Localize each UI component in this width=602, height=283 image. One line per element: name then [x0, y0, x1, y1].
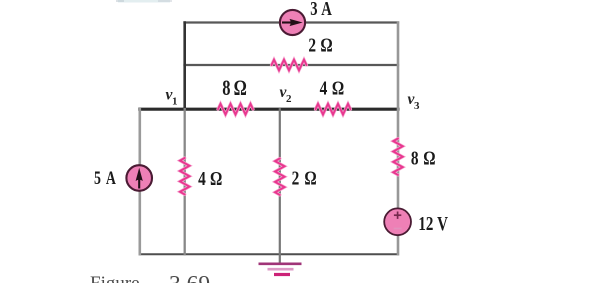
- svg-text:Ω: Ω: [304, 166, 316, 189]
- svg-text:8: 8: [222, 77, 230, 101]
- svg-text:3: 3: [414, 100, 420, 112]
- svg-text:1: 1: [418, 212, 425, 235]
- svg-text:3: 3: [310, 0, 318, 20]
- svg-text:Ω: Ω: [320, 34, 332, 57]
- svg-text:2: 2: [292, 166, 300, 189]
- svg-text:Ω: Ω: [210, 167, 222, 190]
- svg-text:Ω: Ω: [332, 76, 344, 99]
- svg-text:4: 4: [198, 167, 206, 190]
- svg-text:4: 4: [320, 76, 328, 99]
- svg-text:2: 2: [426, 212, 434, 235]
- svg-text:Ω: Ω: [234, 77, 247, 101]
- svg-text:A: A: [106, 167, 116, 188]
- svg-text:8: 8: [411, 146, 419, 169]
- svg-text:V: V: [437, 212, 448, 235]
- svg-text:2: 2: [308, 34, 316, 57]
- svg-text:1: 1: [172, 96, 178, 108]
- svg-text:5: 5: [94, 167, 101, 188]
- svg-text:3.69: 3.69: [169, 272, 210, 283]
- svg-text:Figure: Figure: [90, 273, 140, 283]
- svg-text:A: A: [321, 0, 332, 20]
- svg-text:Ω: Ω: [423, 146, 435, 169]
- svg-text:2: 2: [286, 93, 292, 105]
